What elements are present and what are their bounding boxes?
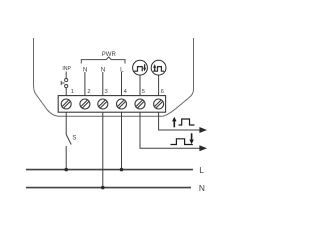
svg-text:5: 5 [142, 89, 145, 95]
svg-text:6: 6 [161, 89, 164, 95]
svg-text:N: N [199, 183, 205, 193]
svg-text:S: S [72, 135, 76, 141]
svg-text:4: 4 [124, 89, 128, 95]
svg-text:1: 1 [71, 89, 74, 95]
svg-text:INP: INP [62, 66, 71, 72]
svg-text:2: 2 [87, 89, 90, 95]
svg-text:L: L [120, 66, 124, 73]
svg-text:N: N [101, 66, 106, 73]
svg-text:N: N [83, 66, 88, 73]
svg-text:PWR: PWR [102, 52, 117, 58]
svg-text:3: 3 [104, 89, 107, 95]
svg-text:L: L [199, 165, 204, 175]
